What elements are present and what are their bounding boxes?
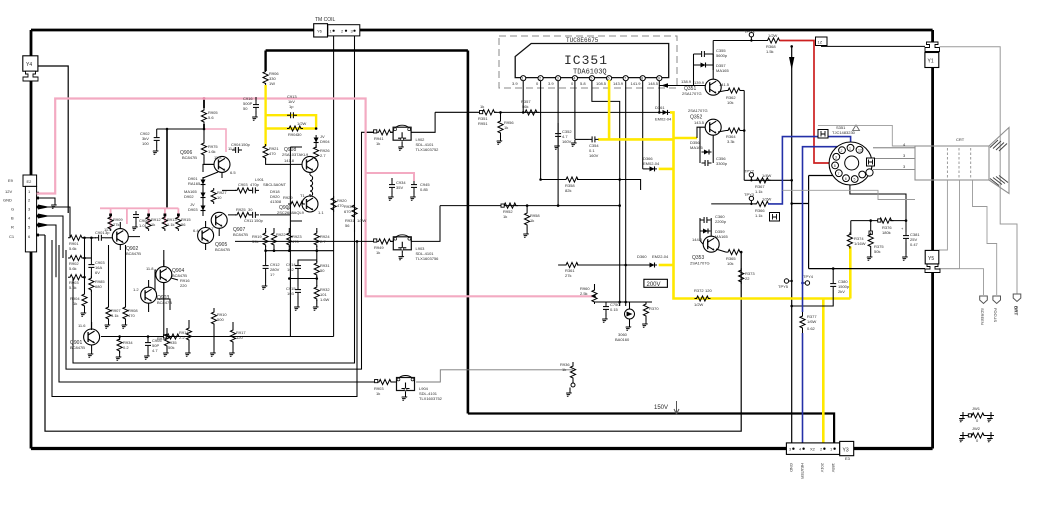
rail y=179.5 with resistor R358	[539, 177, 640, 193]
svg-text:1k: 1k	[480, 104, 484, 109]
svg-text:BA0160: BA0160	[615, 337, 630, 342]
wire: outer frame top	[31, 29, 933, 32]
resistor R903 5.6k base row	[68, 275, 86, 290]
Q901 collector components on line y=336.5	[115, 335, 134, 360]
svg-text:141.9: 141.9	[631, 81, 642, 86]
svg-text:50: 50	[243, 106, 248, 111]
svg-text:470: 470	[128, 313, 135, 318]
svg-text:3p: 3p	[105, 230, 110, 235]
wire: Q351 collector rail to red feed y=40.5	[713, 41, 766, 80]
resistor R377 inline heater	[800, 312, 817, 333]
transistor Q904	[146, 266, 190, 288]
BRT arrow connector	[1013, 294, 1021, 315]
svg-text:D902: D902	[184, 194, 194, 199]
gray wire under socket to neck	[782, 190, 915, 199]
transistor Q352	[688, 108, 721, 135]
svg-text:180k: 180k	[882, 230, 891, 235]
svg-text:100: 100	[142, 141, 149, 146]
svg-text:BC847B: BC847B	[182, 155, 197, 160]
svg-text:1k: 1k	[503, 214, 507, 219]
transistor Q351	[682, 79, 721, 96]
svg-text:E9: E9	[8, 178, 14, 183]
wire: branch y=129 to C902	[157, 129, 204, 134]
resistor R362 Q351 emitter	[718, 82, 744, 105]
svg-text:MA165: MA165	[716, 68, 729, 73]
svg-text:1k: 1k	[73, 301, 77, 306]
svg-text:39k: 39k	[252, 239, 258, 244]
svg-text:6: 6	[845, 177, 847, 181]
gray wire Y5 to SCREEN	[939, 269, 984, 295]
wire: thick vertical x=467.9	[467, 51, 470, 414]
svg-text:SBCL5A0NT: SBCL5A0NT	[263, 182, 286, 187]
svg-text:143.5: 143.5	[694, 120, 705, 125]
svg-text:5.6k: 5.6k	[69, 285, 77, 290]
svg-text:1p: 1p	[289, 104, 294, 109]
svg-text:C1: C1	[9, 234, 15, 239]
svg-text:D360: D360	[637, 254, 647, 259]
svg-text:1k: 1k	[530, 218, 534, 223]
test point TPY5 on GND vertical	[778, 279, 793, 289]
diode D904 and R926 on Q908 collector	[314, 134, 331, 161]
svg-text:6.5: 6.5	[230, 170, 236, 175]
svg-text:670: 670	[344, 209, 351, 214]
svg-text:3.3k: 3.3k	[727, 139, 735, 144]
wire: Q352 collector to yellow stub x=673.5	[660, 168, 674, 170]
test point TPG3	[744, 29, 755, 42]
svg-text:BC847B: BC847B	[215, 247, 230, 252]
capacitor C903 16A 6V	[88, 258, 105, 278]
socket to CRT neck stubs	[873, 142, 915, 170]
svg-text:160V: 160V	[589, 153, 599, 158]
svg-text:108.5: 108.5	[596, 81, 607, 86]
svg-text:1k: 1k	[562, 367, 566, 372]
wire: junction columns x=84.5 x=91.4	[85, 238, 92, 294]
wire: outer frame right through Y1 and Y5	[931, 30, 934, 449]
svg-text:1.1: 1.1	[318, 210, 324, 215]
ground at E9 pin2	[50, 202, 57, 208]
gray wire: Y1 to BRT arrow	[940, 47, 1018, 294]
wire: IC pin1 down to rail y=112.4	[522, 81, 524, 112]
svg-text:EM02-04: EM02-04	[643, 161, 660, 166]
svg-text:220: 220	[180, 283, 187, 288]
svg-text:TPY3: TPY3	[744, 192, 755, 197]
svg-text:1Z: 1Z	[818, 40, 823, 45]
wire: E9 pin5 R arrow	[37, 223, 56, 278]
svg-text:680: 680	[95, 284, 102, 289]
svg-text:1/2W: 1/2W	[762, 197, 772, 202]
svg-text:139.9: 139.9	[694, 80, 705, 85]
wire: nested loop y=396.5 to L903 riser	[52, 240, 357, 397]
yellow wire: after D361 down to junction and to Q352 base	[670, 112, 697, 139]
pink terminal cluster R960/C750/D960	[580, 284, 659, 342]
pink wire: E9 pin1 12V main route to R960 cluster	[37, 99, 595, 297]
svg-text:1.6W: 1.6W	[320, 297, 330, 302]
svg-text:12V: 12V	[5, 189, 12, 194]
resistor R921 470 below yellow	[263, 144, 302, 164]
resistor R930 670	[344, 203, 357, 219]
svg-text:120: 120	[236, 335, 243, 340]
svg-text:185V: 185V	[831, 463, 836, 473]
wire: nested loop E9 pin to Q353 emitter y=431	[45, 235, 741, 431]
capacitor C912 with ground	[261, 251, 281, 290]
svg-text:27k: 27k	[113, 222, 119, 227]
svg-text:TPG3: TPG3	[744, 29, 755, 34]
svg-text:X2: X2	[810, 447, 816, 452]
svg-text:2: 2	[841, 149, 843, 153]
resistor R927 10	[211, 188, 227, 204]
svg-text:R925: R925	[236, 207, 246, 212]
svg-text:150V: 150V	[654, 405, 668, 411]
svg-text:141.5: 141.5	[719, 82, 730, 87]
gray wire above socket	[818, 125, 915, 146]
resistor R952 on rail y=205.6	[501, 203, 528, 219]
svg-text:TM COIL: TM COIL	[315, 17, 335, 23]
R376 row and socket G2 drive	[850, 182, 907, 235]
svg-text:JW1: JW1	[972, 406, 981, 411]
svg-text:160V: 160V	[562, 139, 572, 144]
svg-text:G: G	[11, 207, 14, 212]
svg-text:T1: T1	[300, 193, 305, 198]
svg-text:30: 30	[248, 207, 253, 212]
connector E9/E2	[3, 175, 37, 252]
transistor Q909	[277, 196, 324, 215]
svg-text:56: 56	[181, 222, 186, 227]
svg-text:6.4: 6.4	[193, 228, 199, 233]
svg-text:1/2W: 1/2W	[297, 121, 307, 126]
svg-text:150p: 150p	[241, 142, 251, 147]
svg-text:GND: GND	[3, 198, 12, 203]
wires: transistor interconnects	[92, 172, 222, 329]
svg-text:50k: 50k	[168, 345, 174, 350]
svg-text:138.9: 138.9	[681, 79, 692, 84]
resistors and cap under pink base row	[108, 211, 191, 231]
yellow wire: branch down to Y3 pin 201V	[822, 299, 825, 446]
svg-text:10k: 10k	[727, 100, 733, 105]
wire: IC pin4 down to C354	[574, 81, 576, 139]
resistor R901 5.6k base row	[68, 235, 96, 251]
wire: TPY2 rail y=180.3	[744, 179, 792, 181]
svg-text:1W: 1W	[269, 81, 275, 86]
wire: row y=278.5	[289, 278, 317, 280]
wire: TM coil pin1 vertical x=333.6	[333, 36, 335, 337]
connector Y4	[23, 56, 38, 81]
svg-text:103: 103	[287, 291, 294, 296]
svg-text:TLX1603752: TLX1603752	[416, 147, 440, 152]
svg-text:0.15: 0.15	[610, 307, 619, 312]
resistor R368	[766, 33, 782, 54]
svg-text:5.6k: 5.6k	[69, 266, 77, 271]
svg-text:D904: D904	[320, 139, 330, 144]
connector Y3 bottom	[786, 441, 853, 479]
svg-text:82k: 82k	[565, 188, 571, 193]
resistors R907 R908 with grounds under Q902	[103, 245, 121, 328]
svg-text:R951: R951	[478, 121, 488, 126]
svg-text:C901: C901	[95, 230, 105, 235]
resistor R956 vertical with ground	[495, 111, 514, 144]
connector Y1 top right	[925, 42, 940, 68]
svg-text:TLX1603756: TLX1603756	[416, 256, 440, 261]
svg-text:470p: 470p	[250, 182, 260, 187]
emitter resistor row above y=250.7: R919 R922 R923 R924	[252, 228, 330, 251]
capacitor C380	[790, 267, 849, 307]
wire: Q901 output long line y=336.5	[101, 336, 334, 338]
svg-text:B: B	[11, 216, 14, 221]
boxed label G	[818, 130, 828, 139]
red wire: R368 to CRT socket cathode	[780, 41, 832, 164]
svg-text:500: 500	[217, 317, 224, 322]
svg-text:10: 10	[217, 195, 222, 200]
resistor R904b 1k with ground	[70, 292, 87, 316]
TM COIL assembly	[314, 17, 360, 37]
wire: Q908 emitter/Q909 collector rail x=290 down to y=336	[290, 147, 302, 337]
resistor R951 on rail y=112.4	[478, 104, 497, 126]
svg-text:TPY5: TPY5	[778, 284, 789, 289]
wire: Q906 emitter down and diodes column x=203	[203, 164, 218, 216]
svg-text:1.6k: 1.6k	[208, 149, 216, 154]
wire: IC pin3 down to rail y=205.6	[557, 81, 559, 206]
wire: L902 out riser	[411, 112, 435, 132]
svg-text:TPY4: TPY4	[803, 274, 814, 279]
svg-text:Y4: Y4	[26, 62, 32, 68]
svg-text:R929: R929	[283, 195, 293, 200]
wire: Q903/Q904 chain verticals	[128, 237, 178, 310]
svg-text:SCREEN: SCREEN	[980, 308, 985, 325]
Q352 collector network C356/D358	[690, 127, 728, 166]
resistor R975 1.6k to Q906 base	[201, 128, 222, 165]
connector Y5	[925, 250, 940, 272]
ground Q901 emitter	[87, 345, 94, 357]
svg-text:120: 120	[705, 288, 712, 293]
svg-text:RA165: RA165	[188, 181, 201, 186]
transistor Q353	[690, 236, 719, 265]
svg-text:C904: C904	[231, 142, 241, 147]
FOCUS arrow connector	[993, 296, 1001, 322]
svg-text:1?: 1?	[270, 272, 275, 277]
svg-text:0.62: 0.62	[807, 326, 816, 331]
svg-text:50k: 50k	[874, 249, 880, 254]
svg-text:1.2: 1.2	[133, 287, 139, 292]
svg-text:TPY2: TPY2	[744, 169, 755, 174]
svg-text:0.85: 0.85	[420, 187, 429, 192]
wire: L903 out riser	[411, 206, 440, 242]
resistor R904 30 on yellow loop	[287, 121, 317, 137]
wire: IC pin5 jog then long vertical x=619.7	[592, 81, 620, 306]
svg-text:8: 8	[834, 164, 836, 168]
svg-text:3.9: 3.9	[548, 81, 554, 86]
svg-text:1: 1	[849, 147, 851, 151]
svg-text:35V: 35V	[396, 185, 403, 190]
transistor Q907	[208, 212, 248, 237]
svg-text:4.7: 4.7	[152, 348, 158, 353]
wire: IC pin8 down to D366 row	[642, 81, 644, 169]
pink wire: stub to C934	[366, 173, 414, 181]
rail y=265 with resistor R361 and D360	[558, 262, 647, 278]
svg-text:C911: C911	[244, 218, 254, 223]
svg-text:3: 3	[835, 156, 837, 160]
filter L902	[367, 125, 439, 152]
svg-text:2SA1707G: 2SA1707G	[688, 108, 708, 113]
svg-text:1k: 1k	[151, 222, 155, 227]
transistor Q902	[104, 227, 141, 256]
wire: rail y=112.4 from L902 riser to D361	[435, 111, 658, 113]
svg-text:50: 50	[320, 268, 325, 273]
svg-text:Y5: Y5	[928, 256, 934, 262]
svg-text:12: 12	[858, 149, 862, 153]
capacitor C904 150p	[231, 142, 251, 153]
svg-text:Y1: Y1	[928, 59, 934, 65]
svg-text:2.2: 2.2	[179, 335, 185, 340]
svg-text:1/6W: 1/6W	[807, 319, 817, 324]
svg-text:11.6: 11.6	[78, 323, 86, 328]
CRT neck and funnel	[915, 128, 1009, 194]
wire: IC pin2 down to rail y=179.5	[540, 81, 542, 180]
C914/R931 upper pair	[286, 251, 330, 280]
svg-text:5600p: 5600p	[716, 53, 728, 58]
wire: IC pin9 to Q351 base rail y=85.5	[659, 79, 705, 88]
gray wire: L904 out riser to R936	[416, 370, 573, 382]
svg-text:1.1k: 1.1k	[167, 222, 175, 227]
svg-text:BC847B: BC847B	[126, 251, 141, 256]
wire: emitter join vertical x=744.2 down to TPY2 line	[743, 91, 745, 181]
svg-text:TLX1603752: TLX1603752	[419, 396, 443, 401]
capacitor C913 on yellow loop	[287, 94, 297, 118]
svg-text:150p: 150p	[254, 218, 264, 223]
boxed label H	[770, 213, 780, 222]
filter L903	[235, 235, 439, 261]
resistor R902 5.6k base row	[68, 255, 91, 271]
svg-text:FOCUS: FOCUS	[993, 308, 998, 322]
svg-text:R372: R372	[694, 288, 704, 293]
svg-text:0.47: 0.47	[910, 242, 919, 247]
svg-text:C903: C903	[238, 182, 248, 187]
coil L901 between Q908/Q909	[255, 172, 313, 198]
svg-text:470: 470	[292, 239, 299, 244]
yellow wire: R906 down to R921 and C913/R904 loop	[264, 85, 266, 146]
svg-text:1/2W: 1/2W	[768, 33, 778, 38]
resistor R366	[755, 197, 772, 219]
resistors above grounds	[157, 328, 170, 350]
resistor R373 on x=741 vertical	[739, 268, 756, 284]
diode D361 on rail	[655, 105, 672, 122]
CRT socket S351	[829, 125, 874, 185]
svg-text:148.5: 148.5	[648, 81, 659, 86]
pink wire: array base row y=208.3	[100, 208, 178, 228]
svg-text:41308: 41308	[270, 199, 282, 204]
svg-text:1/2W: 1/2W	[357, 218, 367, 223]
yellow wire: D360 stub	[659, 264, 674, 267]
wire: nested loop y=363 to TM coil pin3 riser	[73, 36, 355, 363]
svg-text:2SA1707G: 2SA1707G	[682, 91, 702, 96]
yellow wire: up to R374	[849, 247, 852, 299]
capacitor C934 cluster under pink stub	[387, 178, 430, 200]
svg-text:E2: E2	[27, 179, 33, 184]
transistor Q903	[133, 287, 172, 305]
svg-text:201V: 201V	[820, 463, 825, 473]
wire: IC pin7 long vertical	[625, 81, 627, 306]
wire: row y=250.7	[266, 250, 334, 252]
svg-text:CRT: CRT	[956, 137, 965, 142]
svg-text:1/2W: 1/2W	[694, 302, 704, 307]
capacitor C902 with ground	[140, 131, 160, 154]
svg-text:470: 470	[269, 151, 276, 156]
svg-text:5: 5	[854, 178, 856, 182]
labels D918 D920	[270, 189, 282, 204]
wire: R906 feed from 150V thick line	[264, 51, 266, 72]
pink wire: stub to Q906 base area	[204, 129, 226, 152]
wire: E9 pin3 G arrow	[37, 205, 70, 238]
wire: 150V rail y=414	[468, 414, 834, 446]
svg-text:1/16W: 1/16W	[854, 241, 866, 246]
svg-text:5.8: 5.8	[580, 81, 586, 86]
resistor R372 inline in yellow 200V wire	[694, 288, 712, 307]
wire: thin black into Y1 from 1Z box	[821, 45, 925, 47]
svg-text:2.5k: 2.5k	[580, 291, 588, 296]
resistor R958 hanging with ground	[522, 206, 540, 238]
resistor R928 and caps row y=190	[222, 182, 260, 193]
svg-text:27k: 27k	[565, 273, 571, 278]
SCREEN arrow connector	[980, 296, 988, 325]
svg-text:R: R	[11, 225, 14, 230]
svg-text:10k: 10k	[727, 261, 733, 266]
wire: from Y4 plug right side down x=68	[38, 66, 68, 213]
transistor Q901	[70, 323, 100, 350]
svg-text:11.8: 11.8	[214, 155, 222, 160]
blue heater wire from socket to Y3	[803, 147, 842, 312]
svg-text:Y6: Y6	[317, 29, 323, 34]
capacitor C354 with ground	[570, 136, 599, 158]
svg-text:2SA1037AKL9: 2SA1037AKL9	[282, 152, 309, 157]
yellow wire: D366 stub	[659, 168, 674, 171]
svg-text:1k: 1k	[376, 391, 380, 396]
wire: rail x=167 from C902 row down to pink base row	[166, 129, 168, 207]
svg-text:141.8: 141.8	[284, 158, 295, 163]
svg-text:1k: 1k	[376, 141, 380, 146]
svg-text:BC847B: BC847B	[70, 345, 85, 350]
svg-text:JW2: JW2	[972, 426, 981, 431]
wire: nested loop y=369 to L902 riser	[66, 132, 375, 369]
resistor R905b 680	[89, 276, 106, 330]
svg-text:162: 162	[287, 267, 294, 272]
svg-text:D361: D361	[655, 105, 665, 110]
svg-text:D903: D903	[188, 207, 198, 212]
row y=214.9 resistor and cap	[228, 207, 290, 223]
svg-text:R370: R370	[649, 306, 659, 311]
label 200V boxed	[644, 279, 668, 288]
test point TPY4 on heater blue	[801, 274, 814, 285]
svg-text:EM02-04: EM02-04	[655, 117, 672, 122]
transistor Q905	[193, 228, 230, 253]
resistor R906 330 1W	[263, 70, 279, 87]
wire: E9 pin6 stub	[37, 234, 45, 236]
diodes D901/D902 column	[184, 176, 206, 213]
svg-text:2SA1707G: 2SA1707G	[690, 261, 710, 266]
svg-text:3.9: 3.9	[512, 81, 518, 86]
resistor R936 with test pin and ground	[560, 362, 576, 396]
svg-text:143.9: 143.9	[613, 81, 624, 86]
svg-text:1.5k: 1.5k	[766, 49, 774, 54]
resistor R364 Q352 emitter	[718, 128, 744, 144]
svg-text:2.7: 2.7	[320, 153, 326, 158]
black rail from x=791.7 to riser x=808.6 and 200V rail y=268.6 to Y5	[792, 176, 925, 269]
svg-text:MA165: MA165	[690, 145, 703, 150]
svg-text:2200p: 2200p	[715, 219, 727, 224]
svg-text:5.6: 5.6	[208, 115, 214, 120]
resistor R905 5.6 hanging from pink 12V line	[201, 97, 218, 129]
Q353 base network C360/D359	[700, 214, 728, 244]
svg-text:3300p: 3300p	[716, 161, 728, 166]
blue wire: R366 to socket G1	[768, 137, 851, 204]
resistor R920 470 on TM rail	[331, 196, 347, 212]
